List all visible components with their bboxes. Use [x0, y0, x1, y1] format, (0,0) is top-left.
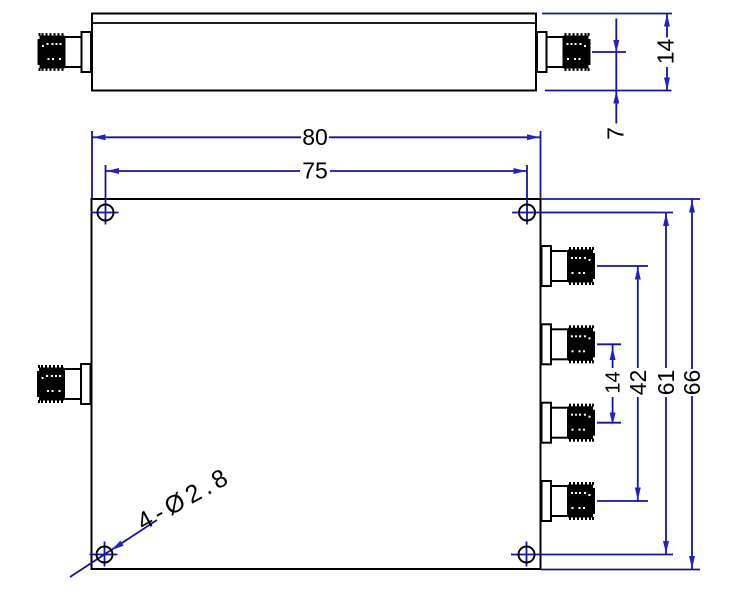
svg-text:14: 14: [603, 371, 625, 393]
svg-text:80: 80: [302, 124, 328, 150]
svg-text:7: 7: [603, 127, 629, 140]
svg-text:66: 66: [679, 370, 705, 396]
svg-text:14: 14: [653, 39, 679, 65]
svg-text:61: 61: [653, 370, 679, 396]
svg-text:75: 75: [302, 158, 328, 184]
svg-text:42: 42: [625, 370, 651, 396]
